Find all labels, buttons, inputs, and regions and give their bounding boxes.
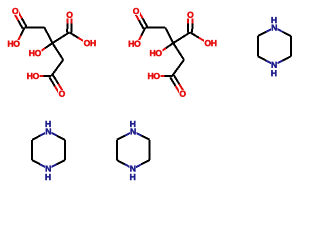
- citric acid molecule 2: [128, 7, 217, 97]
- bond N1-C6 ring bond: [274, 28, 282, 32]
- label H on N1: [129, 120, 136, 128]
- bond C6-C5 ring bond: [149, 140, 151, 160]
- label N1: [130, 128, 137, 136]
- bond C1=O1 carbonyl double bond: [13, 12, 18, 20]
- label H on N4: [129, 173, 136, 181]
- bond C1-O2 hydroxyl: [17, 36, 21, 44]
- label HO central hydroxyl: [149, 49, 162, 57]
- bond N1-C2 ring bond: [125, 131, 133, 135]
- bond C1-CH2a: [145, 26, 165, 28]
- label HO on C1: [128, 40, 141, 48]
- label N4: [45, 165, 52, 173]
- bond N1-C6 ring bond: [133, 131, 141, 135]
- piperazine ring 1 (top right): [258, 16, 291, 77]
- bond C3-C2: [52, 32, 69, 43]
- bond C4=O5 carbonyl double bond: [179, 84, 184, 93]
- citric acid molecule 1: [7, 7, 96, 97]
- bond CH2a-C3: [44, 27, 52, 43]
- label O carbonyl bottom: [58, 90, 66, 98]
- bond C3-CH2b: [52, 43, 63, 60]
- bond C5-N4 ring bond: [274, 61, 282, 65]
- bond C4-O6 hydroxyl: [36, 75, 44, 77]
- bond C2=O3 carbonyl double bond: [187, 15, 189, 24]
- bond C2=O3 carbonyl double bond: [66, 15, 68, 24]
- piperazine ring 3 (bottom middle): [117, 120, 150, 181]
- bond C1-O2 hydroxyl: [137, 36, 141, 44]
- bond C2-C3 ring bond: [116, 140, 118, 160]
- bond C2-C3 ring bond: [31, 140, 33, 160]
- bond C3-CH2b: [173, 43, 184, 60]
- bond C3-C2: [173, 32, 190, 43]
- bond CH2b-C4: [51, 60, 63, 76]
- label HO on C4: [26, 72, 39, 80]
- bond C6-C5 ring bond: [290, 36, 292, 56]
- label N4: [130, 165, 137, 173]
- bond C2-C3 ring bond: [257, 36, 259, 56]
- label H on N1: [271, 16, 278, 24]
- label HO central hydroxyl: [28, 49, 41, 57]
- bond CH2b-C4: [172, 60, 184, 76]
- label N1: [271, 24, 278, 32]
- bond C1=O1 carbonyl double bond: [134, 12, 139, 20]
- bond C3-N4 ring bond: [40, 164, 48, 168]
- bond C2-O4 hydroxyl: [78, 38, 87, 43]
- label O carbonyl top-middle: [66, 11, 74, 19]
- label OH on C2: [204, 39, 217, 47]
- label HO on C4: [147, 72, 160, 80]
- label O carbonyl top-left: [12, 7, 20, 15]
- bond C3-N4 ring bond: [125, 164, 133, 168]
- bond C4=O5 carbonyl double bond: [58, 84, 63, 93]
- bond C1-CH2a: [25, 26, 45, 28]
- label O carbonyl top-left: [132, 7, 140, 15]
- label HO on C1: [7, 40, 20, 48]
- bond C2-O4 hydroxyl: [199, 38, 208, 43]
- label OH on C2: [83, 39, 96, 47]
- label O carbonyl top-middle: [187, 11, 195, 19]
- bond C3-O7 central hydroxyl: [159, 48, 166, 53]
- bond C5-N4 ring bond: [133, 164, 141, 168]
- label H on N1: [45, 120, 52, 128]
- bond C6-C5 ring bond: [64, 140, 66, 160]
- label H on N4: [271, 69, 278, 77]
- bond C3-N4 ring bond: [266, 61, 274, 65]
- bond C3-O7 central hydroxyl: [38, 48, 45, 53]
- bond N1-C2 ring bond: [40, 131, 48, 135]
- bond N1-C2 ring bond: [266, 28, 274, 32]
- label H on N4: [45, 173, 52, 181]
- bond C4-O6 hydroxyl: [157, 75, 165, 77]
- piperazine ring 2 (bottom left): [32, 120, 65, 181]
- bond C5-N4 ring bond: [48, 164, 56, 168]
- bond N1-C6 ring bond: [48, 131, 56, 135]
- label N1: [45, 128, 52, 136]
- label N4: [271, 61, 278, 69]
- bond CH2a-C3: [165, 27, 173, 43]
- label O carbonyl bottom: [179, 90, 187, 98]
